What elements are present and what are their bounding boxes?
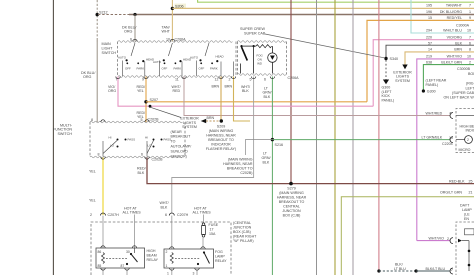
wire WHT/VIO into module pin 2	[417, 240, 450, 242]
label exterior lights system right	[393, 70, 412, 83]
svg-text:SYSTEM: SYSTEM	[182, 125, 197, 129]
svg-text:HARNESS, NEAR: HARNESS, NEAR	[277, 196, 307, 200]
svg-text:BLK/LT BLU: BLK/LT BLU	[426, 267, 446, 271]
svg-text:ON LEFT BACK W: ON LEFT BACK W	[444, 95, 474, 99]
wire LT GRN/BLK horizontal to mirror	[272, 139, 450, 141]
svg-text:FUSE: FUSE	[209, 223, 219, 227]
node S209	[220, 119, 223, 122]
wire vertical maroon RED/BLK top x291	[290, 0, 292, 184]
fuse 17	[202, 223, 219, 237]
mirror box right	[422, 109, 474, 153]
svg-text:RED-BLK: RED-BLK	[449, 180, 465, 184]
svg-text:SWITCH: SWITCH	[102, 51, 117, 55]
svg-text:INDICATOR: INDICATOR	[466, 129, 474, 133]
svg-text:6: 6	[130, 37, 132, 41]
svg-text:294: 294	[426, 29, 432, 33]
svg-text:LT BLU: LT BLU	[394, 267, 406, 271]
svg-text:2: 2	[467, 138, 469, 142]
svg-text:10: 10	[467, 55, 471, 59]
svg-text:BOX (CJB): BOX (CJB)	[233, 230, 251, 234]
svg-text:OFF: OFF	[162, 66, 168, 70]
wire leader super crew to S340	[265, 34, 385, 58]
svg-text:9: 9	[469, 16, 471, 20]
svg-text:HEAD: HEAD	[216, 54, 224, 58]
svg-text:LEFT: LEFT	[466, 86, 474, 90]
wire 15 RED/YEL row + bend down at x367	[367, 20, 474, 101]
svg-text:BODY: BODY	[468, 72, 474, 76]
wire vertical grey x316.5	[316, 0, 318, 275]
node S212	[96, 0, 108, 122]
svg-text:C206A: C206A	[175, 37, 187, 41]
connector C207H pin 2	[90, 213, 119, 217]
multifunction switch internals	[103, 141, 154, 157]
svg-text:PARK: PARK	[174, 66, 182, 70]
wire 294 WH/LT BLU cyan	[411, 0, 474, 33]
svg-text:C2204: C2204	[442, 142, 453, 146]
wire 220 VIO/ORG row bend down at x373	[373, 40, 474, 107]
svg-text:2: 2	[166, 250, 168, 254]
svg-text:S279: S279	[287, 187, 295, 191]
wire 219 WHT/VIO row bend down x416.8	[417, 59, 474, 241]
svg-text:JUNCTION: JUNCTION	[282, 209, 301, 213]
svg-text:WHT/VIO: WHT/VIO	[429, 237, 445, 241]
svg-text:8: 8	[91, 118, 93, 122]
svg-text:C202B: C202B	[152, 157, 164, 161]
svg-text:JUNCTION: JUNCTION	[233, 226, 252, 230]
svg-text:25: 25	[469, 180, 473, 184]
svg-text:638: 638	[426, 60, 432, 64]
svg-text:TO: TO	[171, 140, 176, 144]
main light switch box	[118, 41, 232, 43]
svg-text:17: 17	[210, 228, 214, 232]
svg-text:BOX (CJB): BOX (CJB)	[283, 214, 301, 218]
svg-text:PARK: PARK	[137, 66, 145, 70]
svg-text:LAMP: LAMP	[215, 254, 225, 258]
connector table texts C3000A	[426, 4, 471, 71]
svg-text:DK BLU/ORG: DK BLU/ORG	[440, 10, 462, 14]
svg-text:(MAIN WIRING: (MAIN WIRING	[228, 157, 253, 161]
wire below high beam relay	[126, 268, 128, 275]
connector bumps MLS bottom	[116, 77, 275, 79]
svg-text:1: 1	[167, 272, 169, 275]
svg-text:30: 30	[126, 250, 130, 254]
svg-text:BREAKOUT TO: BREAKOUT TO	[227, 166, 253, 170]
multifunction switch box	[90, 121, 182, 123]
svg-text:BLK: BLK	[161, 205, 168, 209]
svg-text:(LE: (LE	[464, 213, 470, 217]
wire dashed breakout S212 to splice	[98, 14, 131, 16]
svg-text:WHT: WHT	[162, 30, 171, 34]
svg-text:S216: S216	[275, 143, 284, 147]
svg-text:YEL: YEL	[89, 170, 96, 174]
node splice on DK BLU/ORG row	[133, 13, 136, 16]
svg-text:3: 3	[193, 272, 195, 275]
svg-text:BLK: BLK	[264, 95, 271, 99]
svg-text:8: 8	[469, 48, 471, 52]
wires below fog relay	[171, 268, 173, 275]
svg-text:WHT/VIO: WHT/VIO	[447, 55, 463, 59]
svg-text:DAYT: DAYT	[460, 204, 470, 208]
svg-text:6: 6	[264, 78, 266, 82]
svg-text:HIGH: HIGH	[147, 249, 156, 253]
svg-text:(REAR RIGHT: (REAR RIGHT	[233, 235, 257, 239]
svg-text:8: 8	[98, 153, 100, 157]
svg-text:RED: RED	[173, 89, 181, 93]
svg-text:6: 6	[141, 153, 143, 157]
svg-text:11: 11	[175, 78, 179, 82]
svg-text:C206A: C206A	[288, 76, 300, 80]
svg-text:IND: IND	[257, 62, 262, 66]
wire LT GRN/BLK from fog pin 6	[271, 77, 273, 275]
svg-text:S207: S207	[150, 98, 159, 102]
svg-text:220: 220	[426, 35, 432, 39]
svg-text:196: 196	[426, 10, 432, 14]
wire vertical olive x335	[334, 0, 336, 275]
svg-text:AUTO: AUTO	[190, 55, 199, 59]
wire BRN from pin 12 to S209	[220, 77, 222, 122]
svg-text:87: 87	[121, 264, 125, 268]
svg-text:AUTO: AUTO	[118, 55, 127, 59]
svg-text:1: 1	[166, 264, 168, 268]
wire vertical grey-lavender x353	[352, 0, 354, 275]
main light switch internals	[123, 43, 234, 76]
wire green top row	[198, 0, 474, 2]
wire RED/YEL horizontal from S207 to x367	[146, 101, 367, 103]
connector C207H pin 6	[165, 213, 189, 217]
resistor fog indicator	[256, 45, 272, 48]
wire 57 BLK row bend down to S340	[386, 45, 474, 58]
svg-text:PASS: PASS	[164, 138, 172, 142]
label S216 block	[223, 157, 253, 175]
node exterior lights splice on VIO/ORG	[149, 105, 152, 108]
label body box right clipped	[444, 72, 474, 99]
svg-text:10: 10	[467, 29, 471, 33]
svg-text:BRN: BRN	[212, 84, 220, 88]
svg-text:ORG: ORG	[108, 89, 116, 93]
label near breakout autolamp	[171, 130, 192, 159]
svg-text:MICRO: MICRO	[459, 148, 471, 152]
svg-text:WHT/RED: WHT/RED	[426, 111, 443, 115]
svg-text:ALL TIMES: ALL TIMES	[193, 211, 212, 215]
wire dashed BRN leader to exterior lights	[206, 120, 219, 122]
svg-text:7: 7	[469, 4, 471, 8]
svg-text:LAMP: LAMP	[462, 208, 472, 212]
svg-text:PANEL): PANEL)	[426, 83, 439, 87]
wire left tall dark vertical	[52, 0, 54, 275]
svg-text:G300: G300	[427, 89, 436, 93]
wire WHT/RED from pin 11	[184, 77, 450, 116]
svg-text:SUPER CAB: SUPER CAB	[244, 32, 266, 36]
svg-text:PARK: PARK	[210, 66, 218, 70]
svg-text:BLK: BLK	[138, 171, 145, 175]
wire fuse to fog relay	[202, 237, 204, 249]
svg-text:86: 86	[98, 250, 102, 254]
svg-text:C3000A: C3000A	[456, 24, 470, 28]
svg-text:INDICATOR: INDICATOR	[211, 143, 231, 147]
svg-text:(NEAR: (NEAR	[171, 130, 183, 134]
svg-text:S340: S340	[390, 57, 399, 61]
wire DK BLU/ORG drop to main light switch pin 6	[134, 15, 136, 42]
wire into CJB from C207H-6	[171, 216, 173, 250]
LED fog on indicator	[268, 46, 277, 73]
wire BLK/LT BLU dashed bottom	[377, 263, 453, 274]
svg-text:ORG/LT GRN: ORG/LT GRN	[440, 190, 462, 194]
svg-text:5: 5	[250, 78, 252, 82]
fog lamp switch box	[238, 41, 286, 43]
svg-text:AUTOLAMP/: AUTOLAMP/	[171, 145, 192, 149]
node S340	[384, 57, 398, 61]
node S206	[171, 0, 186, 42]
svg-text:RED/YEL: RED/YEL	[447, 16, 462, 20]
ground G300 left kick panel	[382, 60, 395, 103]
svg-text:LT GRN/BLK: LT GRN/BLK	[422, 136, 443, 140]
svg-text:BRN: BRN	[454, 48, 462, 52]
fog switch internal wire	[242, 45, 257, 47]
svg-text:S212: S212	[99, 10, 108, 14]
svg-text:RELAY: RELAY	[147, 258, 159, 262]
svg-text:PASS: PASS	[128, 138, 136, 142]
svg-text:C207H: C207H	[177, 213, 189, 217]
svg-text:BLK: BLK	[263, 160, 270, 164]
svg-text:BRN: BRN	[207, 116, 215, 120]
svg-text:BLK: BLK	[455, 41, 462, 45]
svg-text:195: 195	[426, 4, 432, 8]
label S279 block	[277, 187, 307, 218]
svg-text:YEL: YEL	[137, 89, 144, 93]
svg-text:2: 2	[447, 237, 449, 241]
wire 195 TAN/WHT row	[172, 7, 474, 9]
svg-text:S209: S209	[217, 125, 225, 129]
svg-text:SUNLOAD: SUNLOAD	[171, 149, 189, 153]
svg-text:7: 7	[469, 35, 471, 39]
wire 196 DK BLU/ORG row	[129, 14, 474, 16]
svg-text:ALL TIMES: ALL TIMES	[123, 211, 142, 215]
svg-text:1: 1	[469, 10, 471, 14]
svg-text:(CENTRAL: (CENTRAL	[233, 221, 251, 225]
svg-text:RELAY: RELAY	[215, 259, 227, 263]
svg-text:5: 5	[141, 118, 143, 122]
svg-text:YEL: YEL	[89, 199, 96, 203]
high beam relay	[96, 246, 159, 268]
svg-text:85: 85	[98, 264, 102, 268]
svg-text:BLK: BLK	[242, 89, 249, 93]
svg-text:6: 6	[469, 41, 471, 45]
svg-text:BREAKOUT TO: BREAKOUT TO	[279, 200, 305, 204]
svg-text:SYSTEM: SYSTEM	[395, 79, 410, 83]
svg-text:(MAIN WIRING: (MAIN WIRING	[279, 191, 304, 195]
svg-text:15A: 15A	[209, 232, 216, 236]
wire 14 BRN row bend down arrow	[405, 52, 474, 65]
svg-text:TAN/WHT: TAN/WHT	[446, 4, 463, 8]
svg-text:BEAM: BEAM	[147, 253, 157, 257]
connector bumps MLS top	[133, 39, 137, 41]
wire leader S216 label	[245, 140, 272, 155]
svg-text:(RIG: (RIG	[466, 82, 474, 86]
node S279	[289, 182, 293, 186]
wire RED/BLK from MF pin 6 to S279 and right	[147, 158, 474, 184]
svg-text:BRN: BRN	[225, 84, 233, 88]
svg-text:FLASHER RELAY): FLASHER RELAY)	[206, 147, 236, 151]
label S209 block	[206, 125, 236, 152]
wire hot feed to fuse	[203, 215, 205, 224]
wire WHT/BLK from fog pin 5	[172, 77, 254, 214]
svg-text:BREAKOUT TO: BREAKOUT TO	[208, 138, 234, 142]
svg-text:PANEL): PANEL)	[382, 99, 395, 103]
svg-text:"W" PILLAR): "W" PILLAR)	[233, 239, 254, 243]
connector pins bottom of main light switch	[116, 78, 231, 82]
svg-text:BLK/LT GRN: BLK/LT GRN	[441, 60, 462, 64]
svg-text:219: 219	[426, 55, 432, 59]
svg-text:FOG: FOG	[215, 250, 223, 254]
svg-text:HARNESS, NEAR: HARNESS, NEAR	[206, 134, 236, 138]
svg-text:2: 2	[90, 213, 92, 217]
connector bumps MF switch	[101, 120, 149, 159]
svg-text:57: 57	[428, 41, 432, 45]
wire into CJB from C207H-2	[102, 216, 104, 249]
svg-text:BREAKOUT: BREAKOUT	[171, 135, 192, 139]
svg-text:OFF: OFF	[125, 66, 131, 70]
svg-text:C207H: C207H	[108, 213, 120, 217]
svg-text:C202B): C202B)	[240, 171, 252, 175]
svg-text:WH/LT BLU: WH/LT BLU	[443, 29, 462, 33]
svg-text:VIO/ORG: VIO/ORG	[447, 35, 463, 39]
wire hot feed to high beam relay	[134, 215, 136, 249]
svg-text:10: 10	[166, 37, 170, 41]
daytime running lamps module	[417, 204, 474, 275]
svg-text:(MAIN WIRING: (MAIN WIRING	[209, 129, 234, 133]
node S207	[144, 100, 147, 103]
fog switch lever	[242, 47, 248, 61]
svg-text:HARNESS, NEAR: HARNESS, NEAR	[223, 162, 253, 166]
svg-text:ORG: ORG	[124, 30, 133, 34]
svg-text:HI: HI	[109, 136, 112, 140]
svg-text:21: 21	[469, 190, 473, 194]
svg-text:12: 12	[215, 78, 219, 82]
wire YEL from MF pin 8 to C207H	[102, 158, 104, 216]
node S216	[271, 138, 274, 141]
svg-text:6: 6	[165, 213, 167, 217]
svg-text:HI: HI	[145, 136, 148, 140]
wire BRN from pin 2 bend right	[234, 77, 251, 122]
fog lamp relay	[164, 247, 227, 268]
central junction box dashed	[91, 222, 231, 275]
svg-text:ORG: ORG	[83, 75, 92, 79]
wire RED/YEL from pin 9 through S207	[145, 77, 147, 123]
svg-text:15: 15	[428, 16, 432, 20]
svg-text:AUTO: AUTO	[153, 60, 162, 64]
svg-text:2: 2	[229, 78, 231, 82]
label exterior lights system left	[180, 117, 199, 130]
svg-text:OFF: OFF	[199, 66, 205, 70]
svg-text:14: 14	[428, 48, 432, 52]
svg-text:SWITCH: SWITCH	[57, 132, 72, 136]
wire VIO/ORG from pin 7	[118, 77, 373, 107]
svg-text:EN: EN	[464, 217, 469, 221]
svg-text:C3000B: C3000B	[457, 67, 471, 71]
svg-text:2: 2	[469, 60, 471, 64]
svg-text:CENTRAL: CENTRAL	[283, 205, 300, 209]
fog switch pin5 wire internal	[253, 46, 255, 73]
wire 638 BLK/LT GRN row bend down to ground G300 left rear panel	[423, 65, 474, 91]
wire ORG/LT GRN row	[341, 197, 474, 275]
svg-text:9: 9	[142, 78, 144, 82]
wire vertical rose x379	[378, 0, 380, 271]
